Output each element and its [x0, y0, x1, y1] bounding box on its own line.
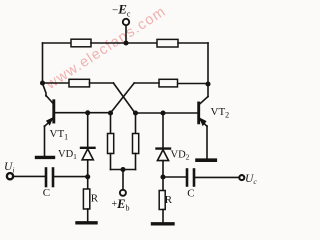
svg-text:C: C — [187, 188, 194, 200]
terminal Uc — [239, 175, 244, 180]
node trigger right — [160, 174, 165, 179]
wire base of VT1 — [56, 112, 111, 114]
wire trigger node to capacitor (right) — [163, 176, 186, 178]
wire row2 left to diagonal — [90, 82, 114, 84]
wire Ui to capacitor — [14, 175, 45, 177]
node bias join center — [120, 167, 125, 172]
svg-text:−Ec: −Ec — [112, 2, 131, 19]
bias resistor (right, to +Eb) — [133, 113, 139, 170]
svg-text:C: C — [43, 187, 50, 199]
wire top rail middle segment — [91, 42, 157, 44]
wire row2 right to diagonal — [134, 82, 159, 84]
svg-text:Ui: Ui — [4, 161, 14, 174]
ground (right R) — [153, 222, 174, 225]
node VD2 top junction — [160, 110, 165, 115]
transistor VT2 — [199, 97, 208, 159]
node left vertical / row2 junction — [40, 80, 45, 85]
wire right vertical (VT2 collector rail) — [207, 43, 209, 97]
wire row2 right from collector node — [178, 83, 209, 85]
svg-text:Uc: Uc — [245, 173, 257, 186]
ground (VT2 emitter) — [197, 158, 215, 162]
node VD1 top junction — [85, 110, 90, 115]
svg-text:R: R — [91, 193, 99, 205]
terminal Ui — [7, 173, 13, 179]
collector resistor (VT2, top right) — [157, 39, 178, 47]
capacitor C (left) — [46, 169, 53, 187]
terminal +Eb — [120, 170, 126, 196]
wire capacitor to terminal Uc — [195, 176, 239, 178]
resistor R (left) — [83, 177, 89, 222]
svg-text:VD2: VD2 — [171, 150, 190, 162]
diode VD2 — [157, 113, 171, 177]
node trigger left — [85, 174, 90, 179]
svg-text:+Eb: +Eb — [112, 197, 130, 213]
node top rail / -Ec junction — [123, 40, 128, 45]
wire left vertical (VT1 collector rail) — [43, 43, 47, 96]
resistor R (right) — [159, 177, 165, 222]
ground (left R) — [77, 221, 96, 224]
wire base of VT2 — [136, 112, 198, 114]
coupling resistor (left) — [69, 79, 90, 87]
wire cross-coupling diagonal A — [113, 83, 135, 113]
watermark www.elecfans.com — [44, 3, 170, 92]
collector resistor (VT1, top left) — [71, 39, 91, 47]
coupling resistor (right) — [159, 79, 178, 87]
terminal -Ec — [123, 19, 129, 43]
node right base wire start / bias resistor junction — [133, 110, 138, 115]
svg-text:VT1: VT1 — [50, 128, 69, 142]
svg-text:VD1: VD1 — [58, 149, 77, 161]
wire row2 left from collector node — [43, 82, 70, 84]
transistor VT1 — [45, 96, 54, 157]
wire bias join — [111, 169, 136, 171]
bias resistor (left, to +Eb) — [108, 113, 114, 170]
diode VD1 — [81, 113, 95, 177]
wire capacitor to trigger node VT1 — [54, 176, 87, 178]
capacitor C (right) — [187, 170, 194, 186]
node left base wire end / bias resistor junction — [108, 110, 113, 115]
wire top rail right segment — [178, 42, 208, 44]
wire top rail left segment — [43, 42, 72, 44]
ground (VT1 emitter) — [37, 156, 54, 159]
wire cross-coupling diagonal B — [111, 83, 135, 113]
node right vertical / row2 junction — [205, 81, 210, 86]
svg-text:R: R — [165, 194, 173, 206]
svg-text:VT2: VT2 — [211, 106, 230, 120]
